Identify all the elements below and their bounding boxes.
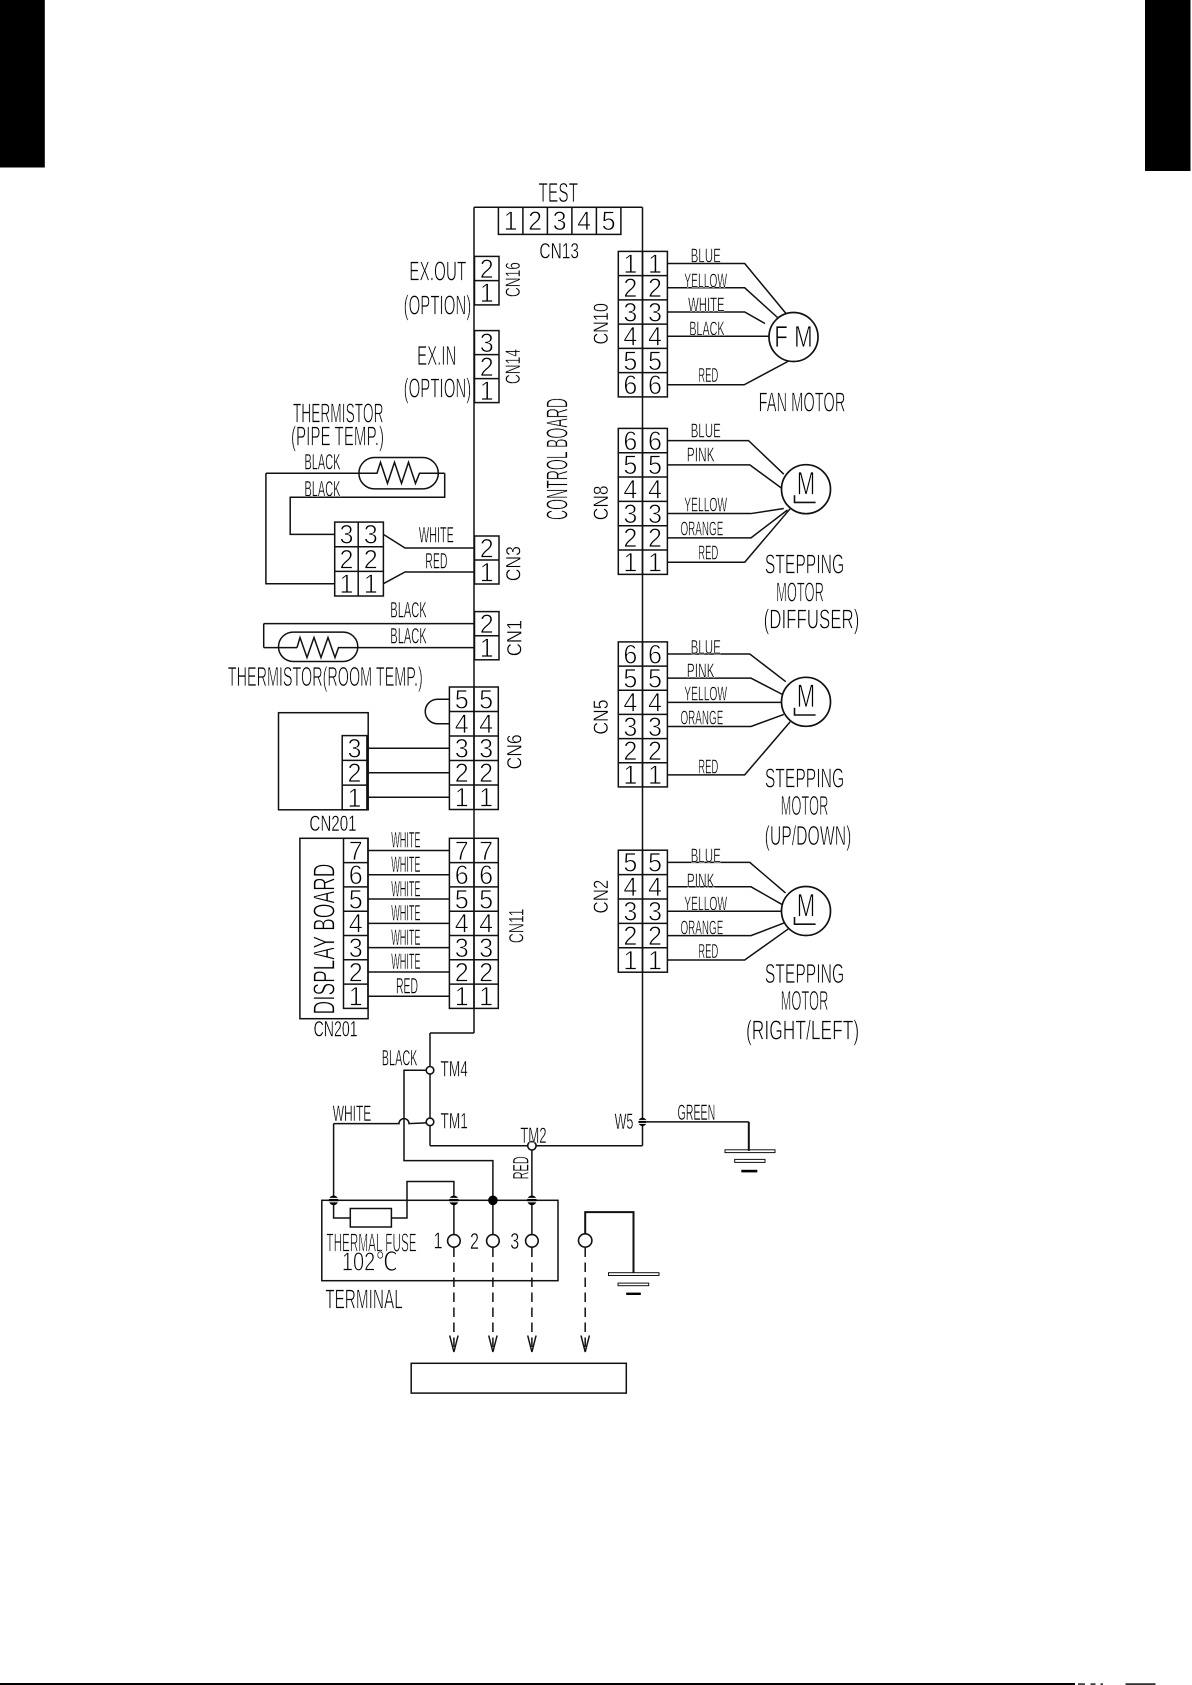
svg-text:BLACK: BLACK [382, 1046, 418, 1071]
svg-text:1: 1 [623, 760, 637, 790]
svg-text:1: 1 [648, 760, 662, 790]
svg-text:FAN MOTOR: FAN MOTOR [759, 387, 846, 418]
svg-text:5: 5 [602, 206, 616, 236]
svg-text:ORANGE: ORANGE [681, 707, 724, 729]
svg-text:STEPPING: STEPPING [765, 762, 844, 793]
svg-text:CONTROL BOARD: CONTROL BOARD [539, 398, 574, 520]
svg-text:BLACK: BLACK [390, 623, 427, 648]
svg-text:CN3: CN3 [503, 546, 526, 581]
svg-text:M: M [797, 887, 816, 923]
svg-text:(UP/DOWN): (UP/DOWN) [765, 820, 852, 851]
svg-text:CN10: CN10 [590, 303, 613, 344]
svg-text:WHITE: WHITE [391, 876, 420, 901]
svg-text:RED: RED [396, 973, 418, 998]
svg-text:MOTOR: MOTOR [781, 985, 829, 1016]
svg-text:YELLOW: YELLOW [684, 683, 727, 705]
svg-text:CN201: CN201 [309, 811, 356, 836]
svg-text:1: 1 [455, 982, 469, 1012]
svg-text:BLUE: BLUE [691, 637, 721, 659]
svg-text:WHITE: WHITE [391, 949, 420, 974]
svg-text:4: 4 [577, 206, 591, 236]
svg-text:6: 6 [623, 370, 637, 400]
svg-text:TERMINAL: TERMINAL [325, 1284, 403, 1315]
svg-text:WHITE: WHITE [688, 295, 725, 317]
svg-text:CN11: CN11 [505, 909, 528, 944]
svg-text:TM4: TM4 [441, 1057, 468, 1082]
svg-text:EX.IN: EX.IN [417, 340, 456, 371]
svg-text:WHITE: WHITE [333, 1101, 372, 1126]
svg-text:PINK: PINK [687, 661, 715, 683]
svg-text:BLUE: BLUE [691, 421, 721, 443]
svg-text:TM1: TM1 [441, 1109, 468, 1134]
svg-text:M: M [797, 678, 816, 714]
svg-text:YELLOW: YELLOW [684, 271, 727, 293]
svg-text:YELLOW: YELLOW [684, 495, 727, 517]
svg-text:CN5: CN5 [590, 700, 613, 735]
svg-text:TM2: TM2 [520, 1123, 546, 1148]
svg-text:1: 1 [349, 982, 363, 1012]
svg-text:BLACK: BLACK [305, 476, 341, 501]
svg-text:1: 1 [480, 633, 494, 663]
svg-text:1: 1 [455, 783, 469, 813]
svg-text:ORANGE: ORANGE [681, 519, 724, 541]
svg-text:1: 1 [623, 548, 637, 578]
svg-text:3: 3 [510, 1228, 519, 1254]
svg-text:1: 1 [479, 982, 493, 1012]
svg-text:CN1: CN1 [504, 620, 527, 656]
svg-text:CN13: CN13 [539, 238, 579, 263]
svg-text:RED: RED [698, 756, 718, 778]
svg-text:3: 3 [553, 206, 567, 236]
svg-text:1: 1 [339, 569, 353, 599]
svg-text:1: 1 [479, 783, 493, 813]
svg-text:RED: RED [698, 543, 718, 565]
svg-text:PINK: PINK [687, 871, 715, 893]
svg-text:2: 2 [470, 1228, 479, 1254]
svg-text:RED: RED [698, 941, 718, 963]
svg-text:CN6: CN6 [504, 734, 527, 769]
svg-text:102℃: 102℃ [342, 1247, 398, 1277]
svg-text:1: 1 [480, 376, 494, 406]
svg-text:WHITE: WHITE [419, 522, 454, 547]
svg-text:(DIFFUSER): (DIFFUSER) [764, 604, 860, 635]
svg-text:1: 1 [648, 548, 662, 578]
svg-text:CN2: CN2 [590, 880, 613, 914]
svg-text:BLACK: BLACK [390, 597, 427, 622]
svg-text:CN8: CN8 [590, 486, 613, 521]
svg-text:1: 1 [348, 783, 362, 813]
svg-text:RED: RED [509, 1156, 534, 1179]
svg-text:1: 1 [623, 945, 637, 975]
svg-text:TEST: TEST [538, 177, 578, 208]
svg-text:(OPTION): (OPTION) [404, 290, 472, 321]
svg-text:YELLOW: YELLOW [684, 893, 727, 915]
svg-text:1: 1 [504, 206, 518, 236]
svg-text:CN201: CN201 [314, 1017, 358, 1042]
svg-text:1: 1 [480, 557, 494, 587]
svg-text:2: 2 [528, 206, 542, 236]
svg-text:1: 1 [480, 278, 494, 308]
svg-text:1: 1 [648, 945, 662, 975]
svg-text:RED: RED [425, 548, 447, 573]
svg-text:(OPTION): (OPTION) [404, 373, 472, 404]
svg-text:F M: F M [774, 319, 812, 354]
svg-text:STEPPING: STEPPING [765, 549, 844, 580]
svg-text:DISPLAY BOARD: DISPLAY BOARD [307, 864, 342, 1015]
svg-text:(RIGHT/LEFT): (RIGHT/LEFT) [746, 1015, 859, 1046]
svg-text:(PIPE TEMP.): (PIPE TEMP.) [291, 421, 384, 452]
svg-text:CN14: CN14 [502, 349, 525, 384]
svg-text:BLACK: BLACK [305, 450, 341, 475]
svg-text:BLACK: BLACK [689, 319, 725, 341]
svg-text:W5: W5 [615, 1109, 634, 1134]
svg-text:RED: RED [698, 365, 718, 387]
svg-text:BLUE: BLUE [691, 245, 721, 267]
svg-text:1: 1 [434, 1228, 443, 1254]
svg-text:EX.OUT: EX.OUT [409, 256, 466, 287]
svg-text:PINK: PINK [687, 445, 715, 467]
svg-text:CN16: CN16 [502, 262, 525, 297]
svg-text:WHITE: WHITE [391, 925, 420, 950]
svg-text:BLUE: BLUE [691, 846, 721, 868]
svg-text:WHITE: WHITE [391, 828, 420, 853]
svg-text:THERMISTOR(ROOM TEMP.): THERMISTOR(ROOM TEMP.) [228, 661, 423, 692]
svg-text:6: 6 [648, 370, 662, 400]
svg-text:ORANGE: ORANGE [681, 917, 724, 939]
svg-text:M: M [797, 466, 816, 502]
svg-text:MOTOR: MOTOR [781, 790, 829, 821]
svg-text:WHITE: WHITE [391, 901, 420, 926]
svg-text:WHITE: WHITE [391, 852, 420, 877]
svg-text:1: 1 [364, 569, 378, 599]
